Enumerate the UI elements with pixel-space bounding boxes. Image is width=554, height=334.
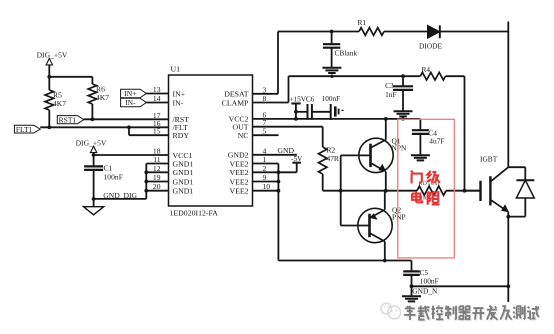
wire Q2 base lead [341, 225, 370, 227]
power DIG_+5V (C1) [76, 139, 107, 153]
svg-text:VEE2: VEE2 [229, 159, 248, 168]
wire R4 to gate node [446, 76, 465, 191]
svg-text:IN+: IN+ [173, 89, 186, 98]
net label IN- [121, 98, 147, 107]
power -5V [278, 155, 303, 172]
svg-text:CBlank: CBlank [335, 49, 358, 58]
resistor R3 (gate) [417, 186, 446, 195]
wire FLT1 to pin 16 [40, 125, 168, 129]
wire top rail left [278, 31, 359, 33]
watermark text 开 [472, 308, 485, 321]
svg-text:1nF: 1nF [385, 90, 397, 99]
svg-text:NC: NC [238, 131, 249, 140]
svg-text:15: 15 [153, 127, 161, 136]
svg-text:U1: U1 [171, 65, 181, 74]
wire pin 1 VEE2 [253, 163, 279, 165]
gate resistor label bottom [421, 196, 430, 202]
net label RST1 [57, 115, 84, 124]
Q2 labels [392, 206, 406, 222]
svg-text:DIG_+5V: DIG_+5V [37, 51, 68, 60]
power +15V [290, 95, 315, 121]
svg-text:GND1: GND1 [173, 187, 194, 196]
svg-text:PNP: PNP [392, 213, 406, 222]
wire +15V to C6 [296, 111, 308, 113]
wire pin 12 [144, 170, 168, 174]
capacitor C1 [84, 164, 123, 182]
wire Q2 emitter [384, 191, 386, 210]
wire pin 10 VEE2 [253, 189, 281, 193]
svg-text:IN+: IN+ [124, 89, 136, 98]
svg-text:DIG_+5V: DIG_+5V [76, 139, 107, 148]
node diode top [508, 166, 525, 168]
wire Q1 collector [384, 117, 388, 140]
svg-text:R4: R4 [422, 65, 431, 74]
wire C1 top [92, 153, 96, 167]
wire C5 bottom [410, 275, 414, 288]
op-amp U1 gate driver 1ED020I12-FA body [169, 75, 253, 206]
wire R1 to diode [384, 31, 428, 33]
resistor R6 [88, 84, 109, 104]
wire pin 2 VEE2 [253, 170, 281, 174]
net GND_N label [412, 287, 438, 296]
ground GND_N [402, 286, 421, 301]
resistor R4 [420, 65, 445, 80]
capacitor C3 [385, 81, 413, 99]
svg-text:47R: 47R [327, 154, 339, 163]
svg-text:GND2: GND2 [228, 151, 249, 160]
wire C1 bottom [92, 170, 96, 207]
wire pin 18 VCC1 [94, 154, 169, 156]
node GND_N / emitter junction [506, 284, 510, 288]
wire R6 top [91, 77, 93, 84]
wire freewheel diode top [524, 167, 526, 180]
U1 refdes [171, 65, 181, 74]
diode DIODE [419, 25, 442, 50]
transistor Q2 [358, 208, 392, 242]
ground (C4) [411, 155, 430, 160]
watermark text 车 [404, 306, 417, 321]
wire diode to IGBT collector [440, 31, 509, 33]
ground (C3) [394, 111, 413, 120]
wire pin 11 [146, 163, 168, 165]
annotation text 级 (red) [427, 171, 440, 183]
svg-text:GND_N: GND_N [412, 287, 438, 296]
capacitor C7 (polarized 100nF) [331, 104, 344, 120]
resistor R5 [45, 90, 66, 110]
gate resistor label top [419, 181, 441, 187]
wire pin 3 DESAT [253, 32, 279, 94]
watermark text 载 [418, 306, 431, 321]
wire RST1 to pin 17 [84, 117, 169, 121]
svg-text:14: 14 [153, 94, 161, 103]
wire pin 6 VCC2 rail [253, 118, 421, 120]
wire C5 top [411, 261, 413, 272]
wire IGBT collector [507, 22, 509, 168]
svg-text:4K7: 4K7 [96, 93, 109, 102]
wire pin 8 CLAMP [253, 76, 289, 102]
wire Q2 collector [383, 241, 387, 262]
wire emitter to gate resistor [386, 190, 417, 192]
annotation text 阻 (red) [428, 192, 440, 205]
svg-text:DIODE: DIODE [419, 42, 442, 51]
wire VEE2 bottom rail [278, 260, 411, 262]
resistor R2 [319, 146, 339, 175]
transistor IGBT [481, 167, 509, 212]
resistor R1 [358, 18, 385, 35]
wire RDY to pin 15 [129, 134, 169, 136]
power DIG_+5V (left) [37, 51, 68, 65]
watermark text 器 [459, 306, 472, 320]
svg-text:+15VC6: +15VC6 [290, 95, 315, 103]
svg-text:100nF: 100nF [104, 172, 123, 181]
U1 right pin names [222, 90, 250, 196]
wire CBlank bottom [331, 48, 333, 68]
svg-text:GND1: GND1 [173, 159, 194, 168]
wire base node [323, 189, 386, 193]
node junction R5/R6 top [47, 75, 92, 79]
watermark text 及 [500, 306, 512, 320]
diode freewheel [516, 180, 534, 198]
wire DIG_+5V stem [48, 65, 50, 90]
wire clamp rail [289, 75, 421, 77]
svg-text:100nF: 100nF [420, 276, 439, 285]
watermark text 控 [432, 305, 445, 320]
watermark text 制 [445, 306, 457, 321]
svg-text:RDY: RDY [173, 131, 190, 140]
U1 part number [170, 209, 219, 218]
svg-text:GND1: GND1 [173, 177, 194, 186]
svg-text:12: 12 [153, 164, 161, 173]
net label IN+ [121, 89, 147, 98]
capacitor C6 [308, 104, 312, 120]
annotation text 电 (red) [412, 191, 422, 202]
node C3 tap [401, 74, 405, 78]
net label FLT1 [14, 125, 40, 134]
wire pin 5 NC stub [253, 134, 279, 136]
wire C4 bottom [419, 134, 421, 155]
wire base rail [340, 155, 342, 225]
svg-text:100nF: 100nF [322, 95, 340, 103]
svg-text:IN-: IN- [173, 98, 184, 107]
transistor Q1 [359, 138, 393, 172]
watermark text 发 [487, 306, 499, 321]
svg-text:VEE2: VEE2 [229, 177, 248, 186]
net GND_DIG label [103, 191, 137, 200]
svg-text:19: 19 [153, 173, 161, 182]
U1 left pin numbers [153, 85, 161, 191]
wire R5 bottom [48, 110, 50, 127]
IGBT label [480, 155, 498, 164]
watermark text 试 [527, 306, 540, 320]
ground (CBlank) [322, 68, 341, 78]
svg-text:R1: R1 [358, 18, 367, 27]
wire pin 9 VEE2 [253, 180, 281, 184]
svg-text:CLAMP: CLAMP [222, 98, 250, 107]
annotation box (gate resistor highlight) [398, 119, 455, 258]
svg-text:RST1: RST1 [59, 115, 77, 124]
wire pin 20 [144, 189, 168, 193]
wire C4 top [419, 119, 421, 130]
wire R6 bottom [91, 104, 93, 119]
wire Q1 base lead [341, 154, 371, 156]
wire pin 19 [144, 180, 168, 184]
net GND label [278, 146, 295, 155]
capacitor C4 [412, 128, 445, 145]
wire C6 to C7 [312, 111, 331, 113]
node FLT/RDY tie [127, 125, 131, 135]
svg-text:GND1: GND1 [173, 168, 194, 177]
wire pin 7 OUT [253, 127, 323, 147]
svg-text:IGBT: IGBT [480, 155, 498, 164]
svg-text:1ED020I12-FA: 1ED020I12-FA [170, 209, 219, 218]
capacitor C6 label [322, 95, 340, 103]
U1 left pin names [173, 89, 194, 195]
wire IGBT gate [465, 190, 481, 192]
annotation text 门 (red) [411, 171, 422, 184]
svg-text:VEE2: VEE2 [229, 187, 248, 196]
wire IN- to pin 14 [146, 102, 168, 104]
svg-text:20: 20 [153, 182, 161, 191]
watermark logo [381, 303, 401, 318]
wire C3 top [402, 76, 404, 86]
svg-text:NPN: NPN [392, 144, 407, 153]
svg-text:4K7: 4K7 [53, 99, 66, 108]
ground GND_DIG (triangle) [84, 207, 104, 215]
svg-text:C1: C1 [104, 164, 113, 173]
svg-text:4u7F: 4u7F [429, 137, 444, 146]
Q1 labels [392, 137, 407, 153]
svg-text:VEE2: VEE2 [229, 168, 248, 177]
wire GND_DIG [94, 164, 147, 199]
wire IGBT emitter [507, 212, 509, 302]
wire GND_N [412, 285, 509, 287]
svg-text:11: 11 [153, 155, 161, 164]
wire CBlank top [331, 32, 333, 45]
wire Q1 emitter [384, 172, 388, 193]
watermark text 测 [513, 306, 525, 321]
wire pin 4 GND2 [253, 154, 297, 156]
svg-text:GND: GND [278, 146, 295, 155]
wire gate resistor to IGBT [446, 189, 481, 193]
wire freewheel diode bottom [506, 198, 525, 219]
capacitor CBlank [323, 44, 357, 57]
wire IN+ to pin 13 [146, 93, 168, 95]
wire C3 bottom [402, 90, 404, 111]
wire VEE2 rail vertical [277, 164, 279, 261]
wire R2 bottom [322, 174, 324, 191]
U1 right pin numbers [263, 85, 271, 191]
capacitor C5 [403, 268, 439, 285]
node CBlank tap [330, 30, 334, 34]
svg-text:DESAT: DESAT [224, 90, 248, 99]
svg-text:13: 13 [153, 85, 161, 94]
svg-text:FLT1: FLT1 [16, 125, 33, 134]
svg-text:IN-: IN- [125, 98, 136, 107]
